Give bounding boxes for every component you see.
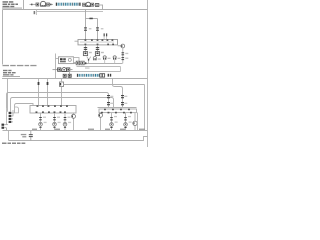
- wire: stub below rail at x36.5: [36, 10, 38, 16]
- switch S1: [60, 82, 64, 87]
- title text block top-left: [3, 1, 19, 7]
- wire: stub left of C7: [53, 69, 58, 71]
- module A1 (RTC board): [59, 57, 74, 64]
- label R10: [125, 53, 128, 54]
- resistor R6 (right col1 upper): [107, 95, 110, 108]
- capacitor C1: [36, 3, 39, 6]
- junction tick on bus A: [85, 62, 86, 64]
- resistor R5: [64, 118, 67, 120]
- module A1 side tab: [74, 58, 80, 63]
- capacitor C14 (above bus): [103, 58, 106, 60]
- fuse F2 inline: [47, 82, 49, 85]
- wire: bus W3: [11, 98, 114, 112]
- wire: mid bus C y71.3: [70, 71, 121, 73]
- wire: C14 stub: [104, 60, 106, 64]
- junction tick right: [50, 4, 51, 6]
- connector J1 pin header (blue pins): [56, 3, 81, 6]
- LED LED1: [39, 122, 43, 127]
- wire: frame divider right of title: [23, 0, 25, 10]
- wire: Q4 emitter drop: [122, 48, 124, 63]
- wire: ground rail y130.5: [3, 130, 148, 132]
- wire: drop x37.5 into U2: [38, 79, 40, 106]
- capacitor C4: [96, 28, 99, 30]
- wire: below U1 col 2: [97, 45, 99, 52]
- jack J2: [83, 52, 87, 56]
- wire: stub right of C2: [49, 3, 53, 5]
- label J3: [101, 52, 104, 53]
- wire: left vertical bus: [2, 10, 4, 65]
- wire: driver right drop: [137, 113, 139, 131]
- wire: left vert from low rail: [7, 79, 9, 112]
- LED LED2: [53, 122, 57, 127]
- connector J6 (left header): [2, 107, 19, 131]
- note underline rule: [3, 76, 21, 78]
- capacitor C15 (above bus): [113, 58, 116, 60]
- transistor Q4: [118, 44, 125, 48]
- resistor R10 (in Q4 drop): [122, 53, 125, 55]
- wire: long rail y84.5 to right: [64, 84, 145, 86]
- title underline rule: [2, 7, 22, 9]
- capacitor C10: [91, 3, 94, 6]
- junction tick on Y: [88, 59, 89, 61]
- labels above ground rail: [32, 129, 145, 130]
- transistor Q1: [72, 113, 76, 131]
- wire: ground return left drop: [8, 131, 10, 141]
- transistor Q3 (right bubble): [133, 113, 137, 131]
- label R8/LED4: [114, 116, 118, 123]
- microcontroller U2: [30, 105, 76, 113]
- wire: low rail y78.5: [2, 78, 148, 80]
- net label N1: [34, 11, 36, 14]
- wire: top rail 1: [3, 9, 148, 11]
- wire: right col1 down: [111, 113, 113, 131]
- wire: top link of driver box: [98, 107, 137, 109]
- wire: drop x70 to low rail: [69, 72, 71, 79]
- wire: vertical x6 feed: [6, 108, 8, 125]
- label C13: [98, 58, 101, 59]
- capacitor C2: [47, 3, 50, 6]
- resistor R7 (right col2 upper): [121, 92, 124, 108]
- diode D3: [63, 74, 66, 77]
- page right border: [147, 0, 149, 147]
- label R3/LED1: [43, 117, 47, 124]
- label R7: [124, 96, 127, 104]
- jumper JP1 (above U1): [104, 33, 108, 39]
- wire: drop from cluster B: [102, 5, 104, 10]
- wire: ground return rail y140.5: [9, 137, 148, 141]
- label C14: [108, 58, 111, 59]
- driver U3: [99, 109, 137, 114]
- wire: top rail 2: [37, 11, 104, 13]
- label R11: [125, 58, 128, 59]
- polyfuse PF1: [108, 74, 112, 77]
- wire: right col2 down: [125, 113, 127, 131]
- label C3: [89, 28, 92, 29]
- wire: stub into module: [56, 58, 59, 60]
- wire: stub right of C8: [70, 69, 73, 71]
- terminal block J7: [2, 124, 5, 129]
- wire: mid bus A y63.3: [74, 63, 123, 65]
- resistor R11 (in Q4 drop): [122, 58, 125, 60]
- wire: vertical into U1 pin at x97.5: [97, 19, 99, 41]
- transistor Q2 (left bubble): [99, 113, 103, 131]
- label R6: [110, 96, 113, 104]
- wire: vertical V2: [55, 54, 57, 71]
- label C15: [118, 58, 121, 59]
- wire: Y-junction feed: [87, 57, 91, 64]
- diode D4: [68, 74, 71, 77]
- resistor R9: [124, 118, 127, 120]
- wire: corner into pin2: [11, 110, 13, 116]
- capacitor C11: [76, 61, 79, 65]
- capacitor C9: [83, 3, 86, 6]
- terminal block J5: [100, 74, 105, 77]
- wire: bus W4: [15, 104, 34, 113]
- wire: drop x55.5 to low rail: [55, 70, 57, 79]
- crystal Y3: [86, 2, 90, 6]
- junction tick left: [31, 4, 32, 6]
- capacitor C6: [96, 48, 99, 50]
- fuse F1 inline: [38, 82, 40, 85]
- resistor R3: [39, 118, 42, 120]
- capacitor C8: [67, 68, 70, 71]
- label C16: [21, 134, 27, 138]
- note text block mid-left: [3, 70, 16, 76]
- capacitor C13 (above bus): [93, 58, 96, 60]
- capacitor C5: [84, 48, 87, 50]
- net label on bus B: [85, 67, 90, 68]
- connector J4 pin header (blue pins): [77, 74, 100, 77]
- wire: jog horizontal y18.5: [86, 18, 98, 20]
- wire: C15 stub: [114, 60, 116, 64]
- wire: drop x60.5 into U2: [61, 79, 63, 83]
- wire: jog into right columns: [113, 79, 123, 93]
- wire: stub left of C1: [30, 3, 37, 5]
- wire: U2 col3 down: [64, 113, 66, 131]
- net name text row (section label): [3, 65, 37, 66]
- wire: U2 col2 down: [54, 113, 56, 131]
- resistor R1: [95, 4, 98, 7]
- label J2: [89, 52, 92, 53]
- LED LED3: [63, 122, 67, 127]
- LED LED5: [124, 123, 128, 128]
- wire: right closure x121: [120, 67, 122, 72]
- crystal Y1: [41, 1, 46, 6]
- label R4/LED2: [57, 117, 61, 124]
- capacitor C12: [81, 61, 84, 65]
- label R9/LED5: [128, 116, 132, 123]
- jack J3: [95, 52, 99, 56]
- capacitor C3: [84, 28, 87, 30]
- footer text row: [2, 143, 25, 145]
- wire: U1 left stub: [75, 40, 79, 42]
- wire: below U1 col 1: [85, 45, 87, 52]
- wire: header drop to ground: [6, 128, 8, 131]
- LED LED4: [110, 123, 114, 128]
- wire: mid bus B y66.5: [77, 66, 121, 68]
- op-amp U1: [78, 39, 118, 45]
- resistor R4: [53, 118, 56, 120]
- resistor R2 (horizontal in jog): [89, 18, 92, 20]
- resistor R8: [110, 118, 113, 120]
- capacitor C16 (between rails): [29, 131, 33, 141]
- label C4: [101, 28, 104, 29]
- capacitor C7: [58, 68, 61, 71]
- wire: S1 drop into U2: [61, 87, 63, 106]
- wire: right drop x145: [144, 85, 146, 131]
- label R5/LED3: [68, 117, 72, 124]
- wire: drop x46.5 into U2: [47, 79, 49, 106]
- wire: bus W2: [7, 93, 109, 109]
- crystal Y2: [62, 68, 67, 72]
- wire: U2 col1 down: [40, 113, 42, 131]
- wire: corner into header: [11, 107, 18, 113]
- wire: vertical into U1 pin at x85.5: [85, 10, 87, 41]
- wire: cluster B link to drop: [94, 4, 104, 6]
